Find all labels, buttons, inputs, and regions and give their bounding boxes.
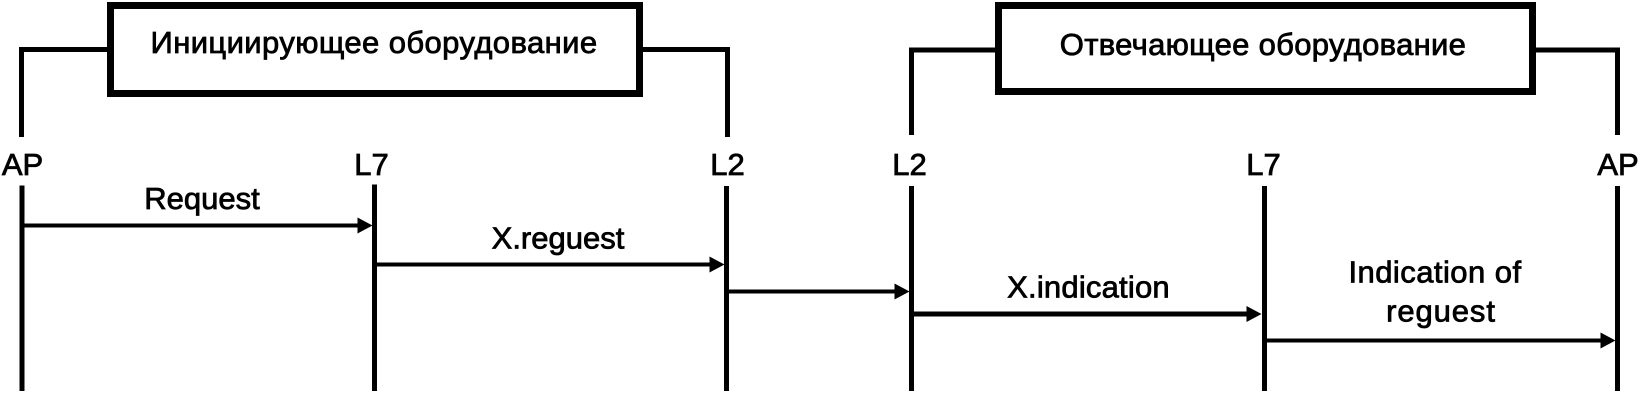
svg-text:L7: L7 (1246, 147, 1280, 182)
lifeline L2 (left) (724, 186, 729, 391)
svg-text:L2: L2 (710, 147, 744, 182)
svg-text:Инициирующее оборудование: Инициирующее оборудование (151, 25, 598, 60)
svg-text:X.reguest: X.reguest (492, 221, 625, 256)
box: Отвечающее оборудование (999, 6, 1533, 92)
svg-text:Отвечающее оборудование: Отвечающее оборудование (1060, 27, 1466, 62)
lifeline L7 (right) (1262, 186, 1267, 391)
wire: left box to L2 lifeline (641, 50, 728, 138)
svg-text:L2: L2 (892, 147, 926, 182)
svg-text:Indication of: Indication of (1348, 255, 1521, 290)
arrow: X.reguest L7 to L2 (375, 263, 712, 267)
arrow: Indication L7 to AP (1265, 339, 1603, 343)
lifeline AP (left) (20, 186, 25, 392)
svg-text:reguest: reguest (1386, 294, 1496, 329)
svg-text:AP: AP (1597, 147, 1638, 182)
svg-text:X.indication: X.indication (1007, 270, 1170, 305)
wire: right box to L2 lifeline (912, 50, 998, 135)
arrow: Request AP to L7 (22, 224, 359, 228)
wire: right box to AP lifeline (1534, 50, 1618, 135)
arrow: X.indication L2 to L7 (912, 312, 1249, 317)
wire: left box to AP lifeline (22, 50, 110, 138)
lifeline L7 (left) (372, 185, 377, 392)
lifeline AP (right) (1615, 186, 1620, 391)
box: Инициирующее оборудование (111, 6, 640, 94)
svg-text:AP: AP (2, 147, 43, 182)
svg-text:L7: L7 (354, 147, 388, 182)
svg-text:Request: Request (144, 181, 260, 216)
arrow: L2 to L2 link (727, 290, 897, 294)
lifeline L2 (right) (909, 186, 914, 391)
